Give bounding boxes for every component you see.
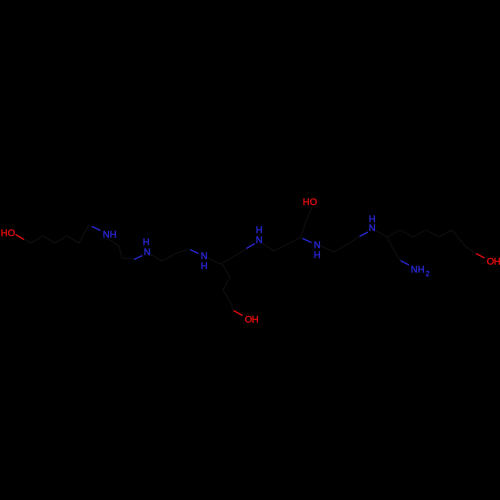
svg-text:H: H bbox=[252, 314, 259, 325]
O1 half-bond stub (red) bbox=[16, 235, 25, 240]
hydroxyl label HO (O2) bbox=[303, 197, 317, 208]
svg-text:H: H bbox=[110, 229, 117, 240]
N2 half-bond stub (blue) bbox=[134, 256, 143, 260]
wire chain N4 to C-junction bbox=[262, 237, 301, 251]
O3 half-bond stub (red) bbox=[476, 254, 485, 259]
wire chain N5 to N6 bbox=[321, 237, 359, 252]
wire chain N2 to N3 bbox=[150, 249, 188, 261]
amine label H over N (N6) bbox=[369, 214, 376, 234]
svg-text:N: N bbox=[103, 229, 110, 240]
svg-text:H: H bbox=[418, 264, 425, 275]
svg-text:H: H bbox=[494, 256, 500, 267]
svg-text:N: N bbox=[369, 223, 376, 234]
carbon skeleton (near-invisible dark bonds) bbox=[24, 207, 475, 310]
svg-text:N: N bbox=[411, 264, 418, 275]
wire chain N6 right bbox=[375, 230, 475, 253]
wire chain N3 to N4 bbox=[208, 249, 246, 264]
N4 half-bond stub (blue) bbox=[247, 244, 256, 249]
N5 half-bond stub (blue) bbox=[303, 239, 312, 243]
hydroxyl label OH (O4) bbox=[245, 314, 259, 325]
amine label H over N (N4) bbox=[256, 225, 263, 246]
wire chain O1 to N1 bbox=[24, 226, 92, 243]
svg-text:H: H bbox=[303, 197, 310, 208]
wire junction to N5 bbox=[301, 237, 303, 239]
wire O2 down to junction bbox=[301, 207, 312, 237]
svg-text:O: O bbox=[8, 228, 15, 239]
svg-text:N: N bbox=[144, 247, 151, 258]
svg-text:N: N bbox=[256, 235, 263, 246]
amine label N over H (N5) bbox=[314, 240, 321, 261]
O4 half-bond stub (red) bbox=[234, 311, 243, 316]
N3 half-bond stub (blue) bbox=[190, 250, 199, 254]
svg-text:O: O bbox=[310, 197, 317, 208]
amine label N over H (N3) bbox=[201, 251, 208, 272]
amine label H over N (N2) bbox=[143, 237, 151, 258]
svg-text:H: H bbox=[314, 250, 321, 261]
wire chain N1 to N2 bbox=[108, 239, 134, 259]
svg-text:2: 2 bbox=[426, 269, 430, 278]
amine label NH2 (N7) bbox=[411, 264, 430, 278]
N7 half-bond stub (blue) bbox=[401, 261, 410, 266]
N6 half-bond stub (blue) bbox=[360, 232, 369, 237]
hydroxyl label OH (O3) bbox=[487, 256, 500, 267]
svg-text:H: H bbox=[1, 228, 8, 239]
wire branch to O4 bbox=[222, 264, 233, 310]
wire branch to NH2 bbox=[387, 237, 400, 260]
hydroxyl label HO (O1) bbox=[1, 228, 15, 239]
amine label NH (N1) bbox=[103, 229, 117, 240]
svg-text:H: H bbox=[201, 261, 208, 272]
N1 half-bond stub (blue) bbox=[92, 227, 101, 231]
